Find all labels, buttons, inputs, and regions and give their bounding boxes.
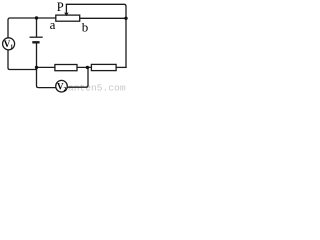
wire battery branch upper (node A down to cell plate) <box>36 18 38 37</box>
wire between resistor R1 and resistor R2 (through node C) <box>77 66 91 68</box>
node B junction dot (battery / middle row) <box>35 66 38 69</box>
wire potentiometer terminal b to node D <box>80 17 126 19</box>
voltmeter V2 (circle) <box>56 80 68 92</box>
battery cell long plate (+) <box>30 36 43 38</box>
wire middle row from node B to resistor R1 <box>37 66 55 68</box>
resistor R2 (middle row right box) <box>91 64 116 70</box>
svg-text:a: a <box>50 17 56 32</box>
wire right edge (wiper rail P corner down through node D to bottom corner) <box>66 4 126 67</box>
resistor R1 (middle row left box) <box>55 65 77 71</box>
node D junction dot (wiper rail / terminal b rail) <box>124 17 127 20</box>
wire top rail from left corner to potentiometer terminal a <box>8 18 56 38</box>
wire bottom row from voltmeter V2 right to riser up to node C <box>67 67 88 87</box>
voltmeter V1 (circle) <box>3 38 15 50</box>
node A junction dot (top rail / battery) <box>35 16 38 19</box>
svg-text:b: b <box>82 19 89 34</box>
node C junction dot (between R1 and R2) <box>86 66 89 69</box>
wire from resistor R2 to right edge bottom corner <box>116 66 126 68</box>
svg-text:P: P <box>57 0 64 14</box>
battery cell short thick plate (-) <box>32 41 39 43</box>
potentiometer R-P (slide rheostat body) <box>56 15 80 21</box>
wiper arrow of potentiometer P <box>64 4 68 16</box>
svg-text:anten5.com: anten5.com <box>68 82 126 93</box>
wire battery branch lower (cell to node B then down to bottom-left row) <box>37 44 57 88</box>
wire left edge lower (voltmeter V1 bottom to bottom-left corner) <box>8 50 37 70</box>
